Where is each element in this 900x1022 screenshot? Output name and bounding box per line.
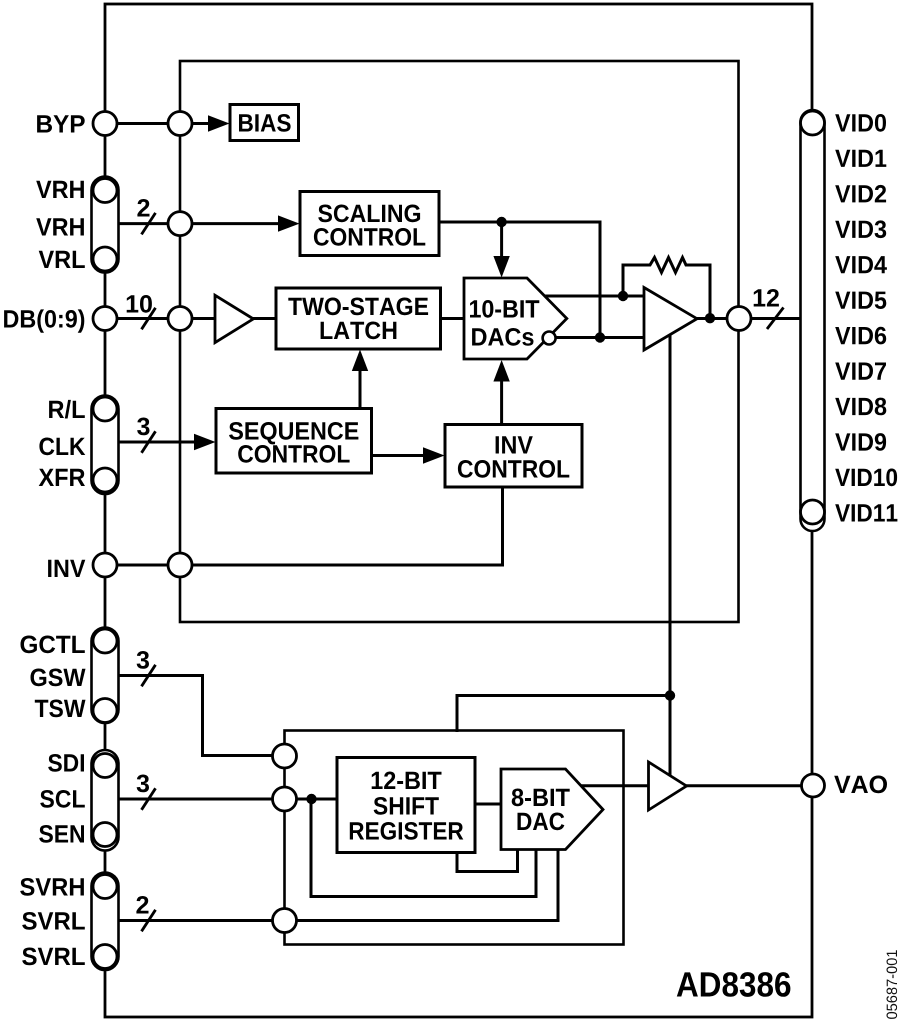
bus count 2 VRH xyxy=(137,199,149,217)
arrowhead down into DACs top xyxy=(493,256,509,278)
bus slash SVRL 2 xyxy=(142,910,156,932)
pin label VID4 xyxy=(835,256,887,273)
label 10-BIT DACs line2 xyxy=(472,328,533,346)
pin label XFR xyxy=(39,469,85,486)
wire scaling dot down to DACs xyxy=(500,222,503,258)
pin label DB(0:9) xyxy=(4,309,84,332)
pin label VID5 xyxy=(835,292,886,309)
label 12-BIT SHIFT REGISTER line3 xyxy=(350,822,464,840)
wire DB row to latch to DACs xyxy=(119,317,465,320)
wire lower box top stub xyxy=(457,696,670,731)
bus slash GSW 3 xyxy=(142,665,156,687)
label SEQUENCE CONTROL line2 xyxy=(238,445,349,463)
pin label VID7 xyxy=(835,363,886,380)
bus slash SCL 3 xyxy=(142,788,156,810)
op-amp U1 output amplifiers xyxy=(644,288,697,351)
pin circle VID11 xyxy=(801,500,825,524)
wire DACs upper output xyxy=(545,295,645,298)
arrowhead up into LATCH xyxy=(352,350,368,372)
wire scaling control output xyxy=(439,222,600,338)
pin label INV xyxy=(48,560,85,577)
pin label SEN xyxy=(39,825,84,843)
node circle DB bus on boundary xyxy=(168,307,192,331)
label SEQUENCE CONTROL line1 xyxy=(229,422,358,444)
pin label TSW xyxy=(35,700,86,718)
pin label R/L xyxy=(49,400,85,419)
node circle VRH bus on boundary xyxy=(168,212,192,236)
pin capsule SVRH-SVRL xyxy=(92,873,119,971)
pin circle BYP xyxy=(93,112,117,136)
wire BYP row xyxy=(105,122,212,125)
wire amp output to VID bus xyxy=(695,317,801,320)
wire lower amp output to VAO xyxy=(686,784,813,787)
label 8-BIT DAC line1 xyxy=(512,789,570,807)
pin label GCTL xyxy=(21,636,85,654)
resistor R feedback xyxy=(623,258,710,273)
pin label VID1 xyxy=(835,150,886,167)
inverter bubble on DACs output xyxy=(543,332,556,345)
pin label BYP xyxy=(37,115,85,132)
pin circle TSW xyxy=(93,699,117,723)
pin circle R/L xyxy=(93,397,117,421)
node circle serial SVRL on boundary xyxy=(273,909,297,933)
bus slash VRH 2 xyxy=(142,213,156,235)
pin label VRH2 xyxy=(36,218,84,235)
label 12-BIT SHIFT REGISTER line2 xyxy=(374,797,439,815)
pin label VID10 xyxy=(835,469,897,487)
label TWO-STAGE LATCH line1 xyxy=(288,298,428,316)
pin circle SDI xyxy=(93,754,117,778)
pin label VID2 xyxy=(835,185,886,203)
pin capsule VID0-VID11 xyxy=(801,110,825,531)
wire SCL branch down xyxy=(311,799,536,897)
upper block boundary xyxy=(180,61,739,622)
pin circle XFR xyxy=(93,468,117,492)
pin capsule VRH/VRL xyxy=(92,177,119,273)
pin label SVRH xyxy=(20,878,84,896)
label 12-BIT SHIFT REGISTER line1 xyxy=(372,772,442,790)
wire INV row xyxy=(105,487,503,565)
bus count 3 GSW xyxy=(137,651,149,669)
node circle serial SCL on boundary xyxy=(273,787,297,811)
junction dot SCL branch xyxy=(306,794,316,804)
pin label GSW xyxy=(31,669,86,687)
bus slash DB 10 xyxy=(142,308,156,330)
wire 8-bit DAC output xyxy=(581,784,651,787)
bus count 2 SVRL xyxy=(136,896,148,914)
figure number 05687-001 xyxy=(887,950,898,1019)
wire sequence to inv control xyxy=(372,454,427,457)
junction dot upper amp input xyxy=(618,291,628,301)
wire DACs lower output xyxy=(556,336,646,339)
wire feedback right vertical xyxy=(709,265,712,318)
wire register bottom stub xyxy=(457,850,518,872)
pin label VID3 xyxy=(835,220,886,238)
bus count 3 CLK xyxy=(137,418,149,436)
pin circle SVRH xyxy=(93,875,117,899)
wire feedback left vertical xyxy=(622,265,625,296)
junction dot scaling line xyxy=(496,217,506,227)
arrowhead into SEQUENCE CONTROL xyxy=(194,434,216,450)
block BIAS xyxy=(230,105,299,141)
arrowhead up into DACs bottom xyxy=(493,360,509,382)
arrowhead into BIAS xyxy=(208,115,230,131)
wire SCL bus row xyxy=(119,798,337,801)
label BIAS xyxy=(239,114,291,132)
pin circle SVRL xyxy=(93,945,117,969)
pin label VID11 xyxy=(835,504,897,521)
pin capsule R/L-XFR xyxy=(92,396,119,495)
pin circle SEN xyxy=(93,823,117,847)
op-amp U2 VAO amplifier xyxy=(649,762,687,810)
pin circle DB xyxy=(93,307,117,331)
bus slash CLK 3 xyxy=(142,431,156,453)
pin label VID6 xyxy=(835,327,886,345)
node circle VID output on boundary xyxy=(727,307,751,331)
node circle BYP on boundary xyxy=(168,112,192,136)
junction dot lower amp input xyxy=(595,332,605,342)
pin circle VRL xyxy=(93,247,117,271)
arrowhead into INV CONTROL xyxy=(423,447,445,463)
block TWO-STAGE LATCH xyxy=(276,288,441,349)
part number AD8386 xyxy=(677,972,791,997)
bus slash VID 12 xyxy=(767,308,784,330)
junction dot amp output xyxy=(705,313,715,323)
label 10-BIT DACs line1 xyxy=(470,300,539,318)
node circle serial SDI on boundary xyxy=(273,744,297,768)
pin label SVRL2 xyxy=(22,948,85,966)
pin capsule SDI-SEN xyxy=(92,750,119,851)
junction dot lower feedback xyxy=(665,690,675,700)
pin label SVRL xyxy=(22,912,85,930)
pin label VRH xyxy=(36,181,84,198)
lower block boundary xyxy=(285,731,624,945)
block INV CONTROL xyxy=(445,425,582,488)
label SCALING CONTROL line1 xyxy=(318,205,420,223)
label TWO-STAGE LATCH line2 xyxy=(321,322,397,340)
pin label VID0 xyxy=(835,114,886,132)
wire sequence control up to latch xyxy=(359,370,362,409)
pin label VID9 xyxy=(835,433,886,451)
pin label SCL xyxy=(40,790,85,808)
wire GSW bus row xyxy=(119,676,285,756)
pin circle VAO xyxy=(802,774,825,797)
pin circle VID0 xyxy=(801,111,825,135)
pin circle VRH xyxy=(93,179,117,203)
wire inv control up to DACs xyxy=(500,383,503,425)
bus count 10 DB xyxy=(127,295,152,313)
node circle INV on boundary xyxy=(168,553,192,577)
wire VRH bus row xyxy=(119,222,282,225)
pin capsule GCTL-TSW xyxy=(92,628,119,724)
block SCALING CONTROL xyxy=(300,192,439,256)
block 10-BIT DACs pentagon xyxy=(464,278,567,359)
pin label VAO xyxy=(834,776,887,794)
label INV CONTROL line1 xyxy=(496,436,533,453)
bus count 3 SCL xyxy=(137,775,149,793)
pin circle GCTL xyxy=(93,629,117,653)
label INV CONTROL line2 xyxy=(458,460,569,478)
chip outline xyxy=(105,4,812,1017)
bus count 12 VID xyxy=(754,289,779,307)
block 12-BIT SHIFT REGISTER xyxy=(337,758,475,853)
pin label VRL xyxy=(39,251,85,268)
arrowhead into SCALING CONTROL xyxy=(278,215,300,231)
label SCALING CONTROL line2 xyxy=(314,228,425,246)
wire register to 8-bit DAC xyxy=(475,803,501,806)
wire CLK bus row xyxy=(119,441,198,444)
pin label VID8 xyxy=(835,398,886,416)
pin label CLK xyxy=(39,438,85,456)
block SEQUENCE CONTROL xyxy=(216,409,372,474)
pin circle INV xyxy=(93,553,117,577)
block 8-BIT DAC pentagon xyxy=(501,769,603,850)
pin label SDI xyxy=(48,754,84,772)
wire amp output down to lower amp xyxy=(669,334,672,777)
label 8-BIT DAC line2 xyxy=(518,813,565,831)
wire SVRL bus row xyxy=(119,850,559,921)
buffer triangle DB input xyxy=(215,295,253,342)
